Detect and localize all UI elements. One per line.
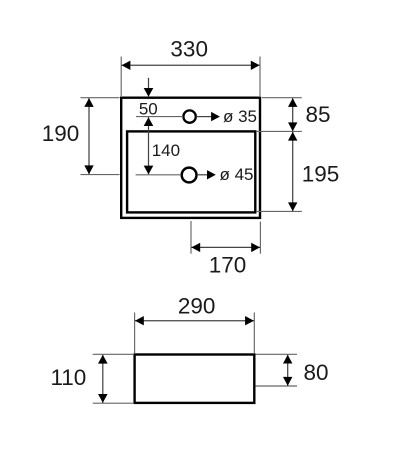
- extension line 85/195 middle right: [257, 130, 302, 132]
- arrowhead 140 down: [144, 166, 154, 175]
- arrowhead 140 up: [144, 117, 154, 126]
- extension line 330 left: [120, 57, 122, 97]
- arrowhead 195 down: [288, 202, 297, 211]
- svg-text:ø 45: ø 45: [220, 165, 254, 184]
- extension line 170 left: [190, 221, 192, 254]
- arrowhead 290 right: [245, 316, 254, 325]
- arrowhead 190 up: [84, 98, 93, 107]
- arrowhead 110 down: [98, 394, 108, 403]
- svg-text:190: 190: [42, 121, 80, 146]
- dimension line 110: [102, 355, 104, 403]
- svg-text:ø 35: ø 35: [223, 107, 257, 126]
- leader line through drain hole ø45: [136, 174, 182, 176]
- svg-text:80: 80: [303, 360, 328, 385]
- dimension line 330: [122, 64, 260, 66]
- svg-text:85: 85: [305, 102, 330, 127]
- arrowhead 330 left: [122, 61, 131, 70]
- dimension line 195: [292, 132, 294, 211]
- basin body rectangle (front view): [135, 355, 255, 403]
- basin inner bowl rectangle (top view): [127, 131, 255, 212]
- arrowhead 50 down onto rim: [144, 88, 154, 97]
- arrowhead 110 up: [98, 355, 108, 364]
- arrowhead 290 left: [135, 316, 144, 325]
- leader line from drain hole to ø45 note: [197, 174, 208, 176]
- extension line 85 top right: [262, 97, 302, 99]
- dimension line 85: [292, 98, 294, 131]
- extension line 80 top: [256, 353, 298, 355]
- svg-text:195: 195: [302, 161, 340, 186]
- arrowhead ø35 note: [211, 112, 220, 121]
- svg-text:50: 50: [139, 100, 158, 119]
- dimension line 290: [135, 320, 254, 322]
- extension line 110 top: [93, 353, 133, 355]
- svg-text:170: 170: [209, 252, 247, 277]
- extension line 190 bottom (drain centreline): [81, 174, 120, 176]
- dimension line 140: [148, 117, 150, 174]
- extension line 190 top: [81, 97, 120, 99]
- extension line 290 right: [253, 313, 255, 354]
- svg-text:110: 110: [50, 365, 86, 390]
- extension line 330 right: [259, 57, 261, 97]
- extension line 110 bottom: [93, 402, 133, 404]
- tap hole circle ø35: [183, 110, 195, 122]
- dimension 50 stub line above rim: [148, 78, 150, 89]
- extension line 80 bottom: [256, 385, 298, 387]
- arrowhead 170 left: [191, 243, 200, 252]
- arrowhead 195 up: [288, 132, 297, 141]
- drain hole circle ø45: [182, 168, 197, 183]
- arrowhead ø45 note: [207, 170, 216, 179]
- svg-text:140: 140: [152, 141, 180, 160]
- dimension line 170: [191, 246, 260, 248]
- arrowhead 80 up: [283, 355, 292, 364]
- arrowhead 85 down: [288, 122, 297, 131]
- arrowhead 190 down: [84, 165, 93, 174]
- extension line 290 left: [134, 313, 136, 354]
- arrowhead 330 right: [251, 61, 260, 70]
- leader line through tap hole ø35: [136, 116, 183, 118]
- arrowhead 170 right: [251, 243, 260, 252]
- arrowhead 80 down: [283, 377, 292, 386]
- arrowhead 85 up: [288, 98, 297, 107]
- basin outer rim rectangle (top view): [121, 98, 260, 218]
- svg-text:290: 290: [178, 293, 216, 318]
- extension line 195 bottom right: [257, 210, 302, 212]
- dimension line 80: [287, 355, 289, 386]
- extension line 170 right: [259, 222, 261, 254]
- leader line from tap hole to ø35 note: [196, 116, 212, 118]
- svg-text:330: 330: [170, 37, 208, 62]
- dimension line 190: [88, 98, 90, 174]
